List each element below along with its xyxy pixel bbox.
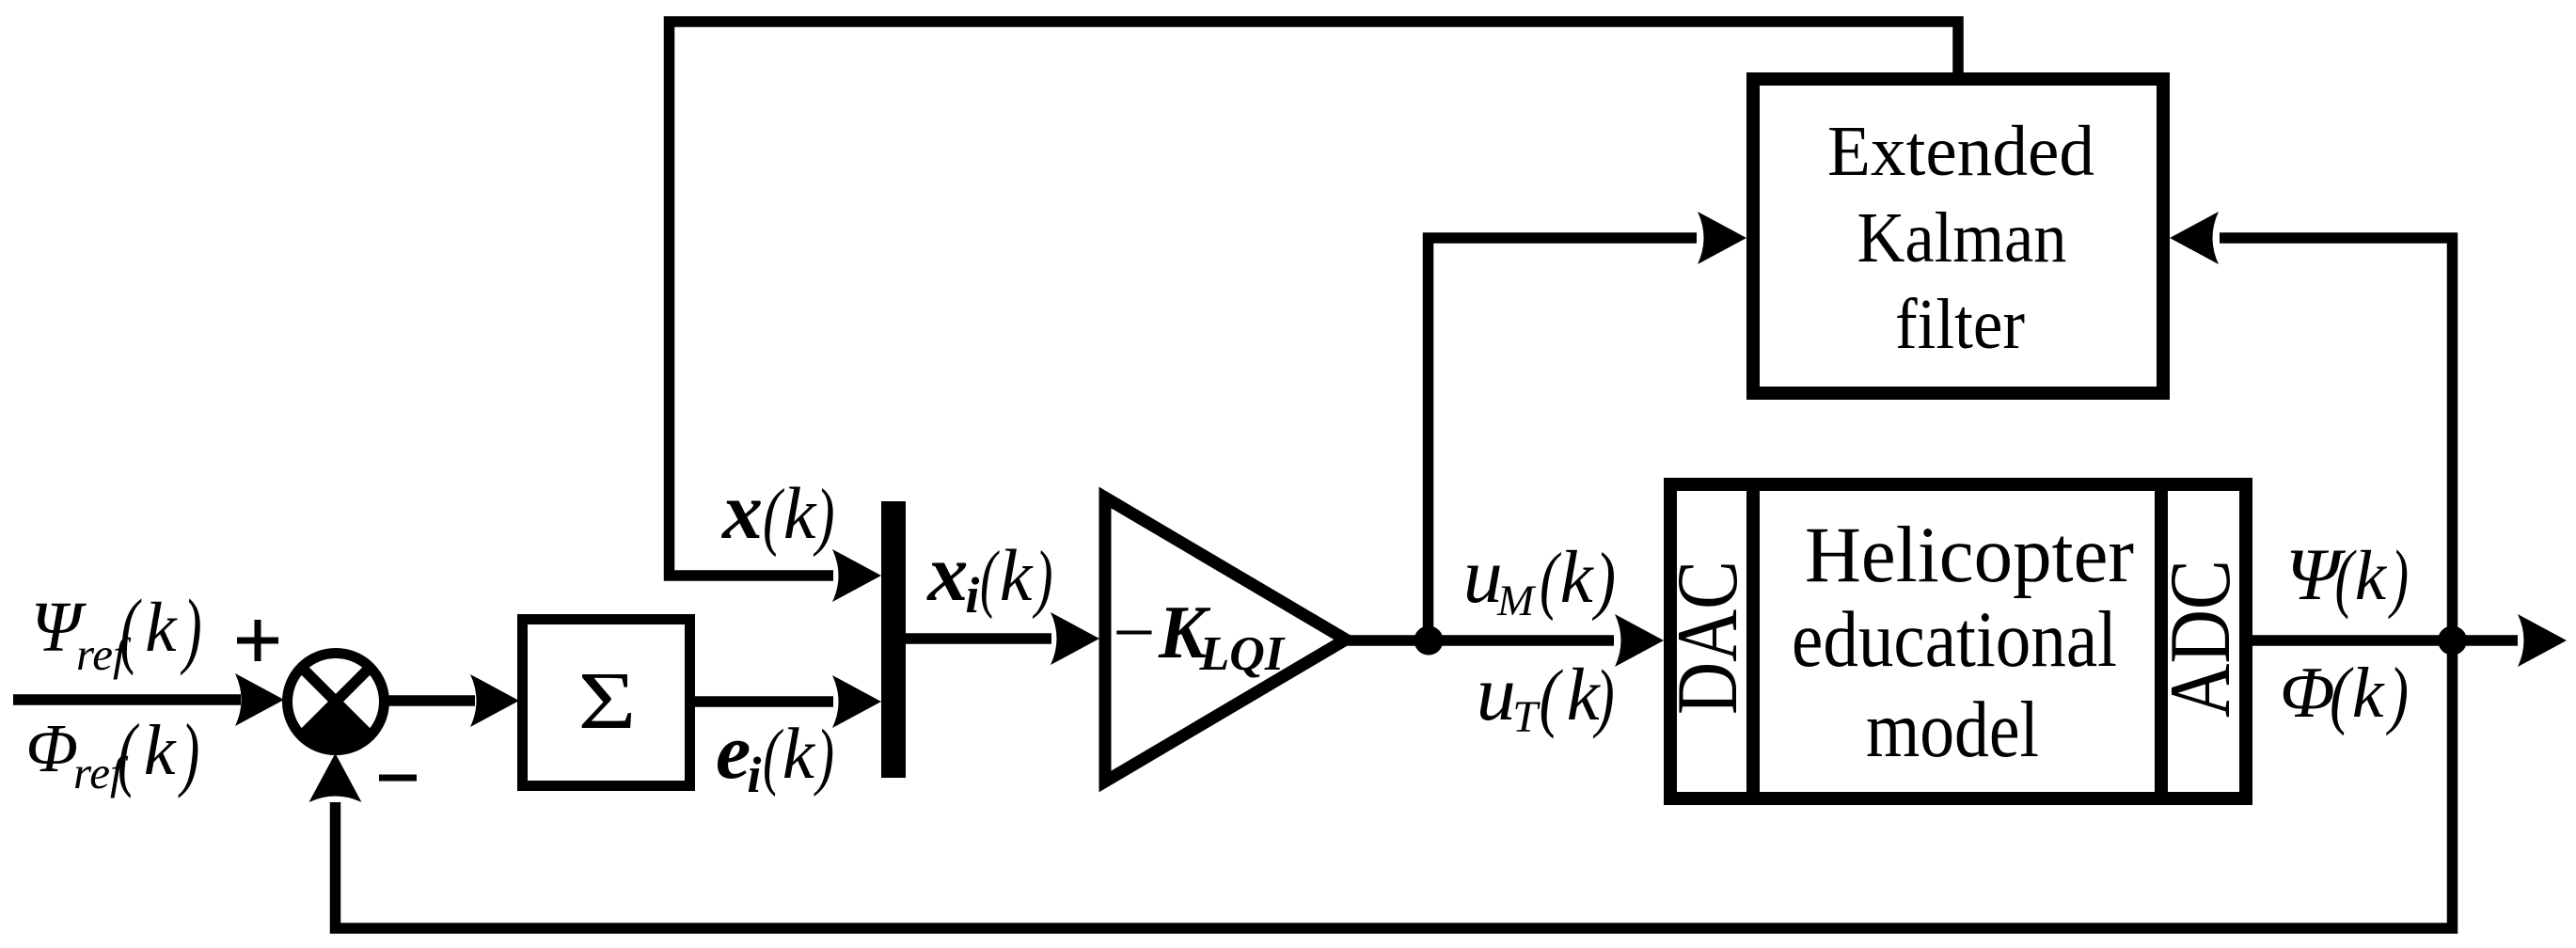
summing junction [288,654,385,755]
svg-text:): ) [813,475,834,558]
wire: branch up to Kalman filter left input [1429,212,1747,640]
Extended Kalman filter block [1753,79,2163,393]
svg-text:k: k [2355,537,2388,615]
svg-text:M: M [1496,577,1537,625]
wire: integrator to mux e_i(k) [695,675,881,728]
node: output branch [2438,626,2467,656]
svg-text:): ) [2388,534,2409,620]
gain block -K_LQI (triangle) [1105,498,1346,782]
wire: top feedback x(k) from Kalman filter down to mux [670,22,1959,602]
svg-text:k: k [1560,537,1595,619]
svg-text:Extended: Extended [1827,112,2094,191]
svg-text:): ) [178,708,199,799]
svg-text:(: ( [980,537,1000,620]
svg-text:T: T [1512,692,1541,742]
svg-text:k: k [144,711,177,790]
svg-text:x: x [925,528,968,618]
wire: mux to gain x_i(k) [906,612,1099,665]
minus sign [379,775,417,782]
svg-text:DAC: DAC [1659,561,1755,715]
mux bar [881,501,906,778]
svg-text:model: model [1866,686,2039,774]
label u_M(k) [1463,532,1616,625]
integrator block Sigma [523,620,690,786]
label e_i(k) [716,708,834,803]
svg-text:Kalman: Kalman [1857,198,2067,277]
label ADC (rotated) [2152,560,2248,718]
svg-text:k: k [782,713,816,794]
svg-text:(: ( [118,708,139,799]
svg-text:): ) [814,716,834,798]
svg-text:i: i [747,747,761,803]
svg-text:e: e [716,708,751,796]
plus sign [237,620,278,661]
wire: summing junction to integrator [387,674,519,727]
wire: reference input [13,673,284,726]
svg-text:(: ( [120,583,142,676]
svg-text:): ) [1593,654,1615,739]
svg-text:): ) [1033,537,1053,620]
wire: bottom feedback to summing junction [309,640,2453,928]
svg-text:): ) [1592,537,1616,622]
svg-text:u: u [1477,650,1516,737]
svg-text:): ) [180,583,201,676]
wire: plant output [2252,614,2567,667]
svg-text:LQI: LQI [1199,627,1286,681]
label Psi_ref(k) [31,583,202,680]
svg-text:(: ( [1540,654,1564,739]
label x(k) [720,466,835,558]
svg-text:(: ( [2335,534,2357,620]
wire: output up to Kalman filter right input [2170,212,2453,640]
label Psi(k) [2285,533,2409,620]
svg-text:−: − [1108,592,1159,674]
wire: gain output to DAC [1346,614,1664,667]
svg-text:Φ: Φ [25,710,78,786]
svg-text:filter: filter [1895,285,2025,364]
svg-text:Helicopter: Helicopter [1805,511,2134,599]
svg-text:educational: educational [1792,595,2117,684]
svg-text:Σ: Σ [578,655,637,746]
svg-text:ADC: ADC [2152,560,2248,718]
svg-text:(: ( [763,475,784,558]
svg-text:): ) [2386,652,2409,736]
label u_T(k) [1477,650,1615,742]
svg-text:k: k [1000,534,1034,616]
svg-text:k: k [145,589,178,667]
svg-text:Φ: Φ [2280,652,2335,733]
Helicopter educational model block [1670,478,2246,798]
node: control signal branch [1414,626,1444,656]
label Phi(k) [2280,652,2409,736]
svg-text:i: i [965,567,979,624]
svg-text:x: x [720,466,763,556]
label DAC (rotated) [1659,561,1755,715]
label x_i(k) [925,528,1052,624]
svg-text:k: k [2352,654,2385,733]
label Phi_ref(k) [25,708,199,799]
svg-text:k: k [783,472,817,554]
